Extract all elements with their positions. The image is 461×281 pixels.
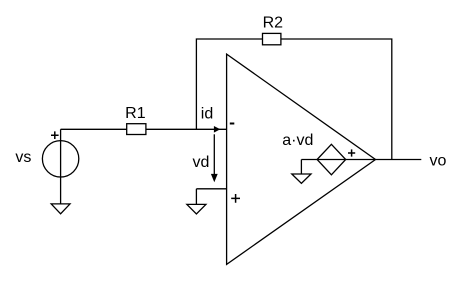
svg-text:a·vd: a·vd <box>282 132 313 149</box>
svg-text:id: id <box>201 106 213 123</box>
svg-text:vs: vs <box>15 149 31 166</box>
svg-text:R2: R2 <box>263 14 284 31</box>
svg-text:vo: vo <box>429 152 446 169</box>
svg-text:vd: vd <box>192 154 209 171</box>
svg-text:R1: R1 <box>125 105 146 122</box>
